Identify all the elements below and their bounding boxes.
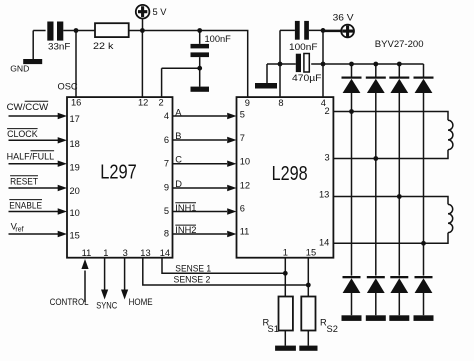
svg-text:RESET: RESET <box>10 176 38 186</box>
svg-text:6: 6 <box>164 135 169 145</box>
svg-text:13: 13 <box>319 190 329 200</box>
svg-text:BYV27-200: BYV27-200 <box>375 39 424 49</box>
svg-text:8: 8 <box>164 229 169 239</box>
svg-text:CLOCK: CLOCK <box>7 129 38 139</box>
svg-text:7: 7 <box>240 133 245 143</box>
svg-text:A: A <box>175 107 182 117</box>
svg-text:100nF: 100nF <box>205 34 232 44</box>
svg-text:11: 11 <box>240 227 250 237</box>
svg-text:6: 6 <box>240 203 245 213</box>
svg-text:11: 11 <box>82 248 92 258</box>
svg-text:17: 17 <box>70 114 80 124</box>
svg-text:INH2: INH2 <box>175 225 196 235</box>
svg-text:S1: S1 <box>268 324 279 334</box>
svg-text:OSC: OSC <box>58 82 78 92</box>
svg-text:4: 4 <box>164 111 169 121</box>
svg-text:8: 8 <box>278 98 283 108</box>
svg-text:D: D <box>175 179 182 189</box>
svg-text:20: 20 <box>70 186 80 196</box>
svg-text:36 V: 36 V <box>333 13 355 23</box>
svg-text:14: 14 <box>319 238 329 248</box>
svg-text:2: 2 <box>159 98 164 108</box>
svg-text:HOME: HOME <box>129 297 153 307</box>
svg-text:1: 1 <box>283 247 288 257</box>
svg-text:SYNC: SYNC <box>96 301 117 311</box>
svg-text:1: 1 <box>103 248 108 258</box>
svg-text:9: 9 <box>164 183 169 193</box>
svg-text:CW/CCW: CW/CCW <box>7 102 49 112</box>
svg-text:C: C <box>175 154 182 164</box>
svg-text:7: 7 <box>164 158 169 168</box>
svg-text:5 V: 5 V <box>153 7 168 17</box>
svg-text:14: 14 <box>160 248 170 258</box>
svg-text:ENABLE: ENABLE <box>9 200 42 210</box>
svg-text:INH1: INH1 <box>175 203 196 213</box>
svg-text:SENSE 2: SENSE 2 <box>174 274 211 284</box>
svg-text:5: 5 <box>164 206 169 216</box>
svg-text:2: 2 <box>325 106 330 116</box>
svg-text:5: 5 <box>240 109 245 119</box>
svg-text:16: 16 <box>71 98 81 108</box>
svg-text:13: 13 <box>140 248 150 258</box>
svg-text:B: B <box>175 131 181 141</box>
svg-text:10: 10 <box>70 208 80 218</box>
svg-text:15: 15 <box>306 247 316 257</box>
svg-text:18: 18 <box>70 139 80 149</box>
svg-text:SENSE 1: SENSE 1 <box>175 263 211 273</box>
svg-text:CONTROL: CONTROL <box>50 297 89 307</box>
svg-text:L297: L297 <box>100 161 137 183</box>
svg-text:100nF: 100nF <box>289 42 318 52</box>
svg-text:12: 12 <box>138 98 148 108</box>
svg-text:L298: L298 <box>272 163 308 185</box>
svg-text:12: 12 <box>240 180 250 190</box>
svg-text:ref: ref <box>15 226 23 233</box>
svg-text:GND: GND <box>10 64 29 74</box>
svg-text:3: 3 <box>325 153 330 163</box>
svg-text:22 k: 22 k <box>93 41 114 51</box>
svg-text:HALF/FULL: HALF/FULL <box>7 151 55 161</box>
svg-text:3: 3 <box>123 248 128 258</box>
svg-text:9: 9 <box>245 98 250 108</box>
svg-text:S2: S2 <box>327 324 338 334</box>
svg-text:33nF: 33nF <box>48 42 71 52</box>
svg-text:19: 19 <box>70 162 80 172</box>
svg-text:470µF: 470µF <box>292 73 322 83</box>
svg-text:15: 15 <box>70 231 80 241</box>
svg-text:10: 10 <box>240 157 250 167</box>
